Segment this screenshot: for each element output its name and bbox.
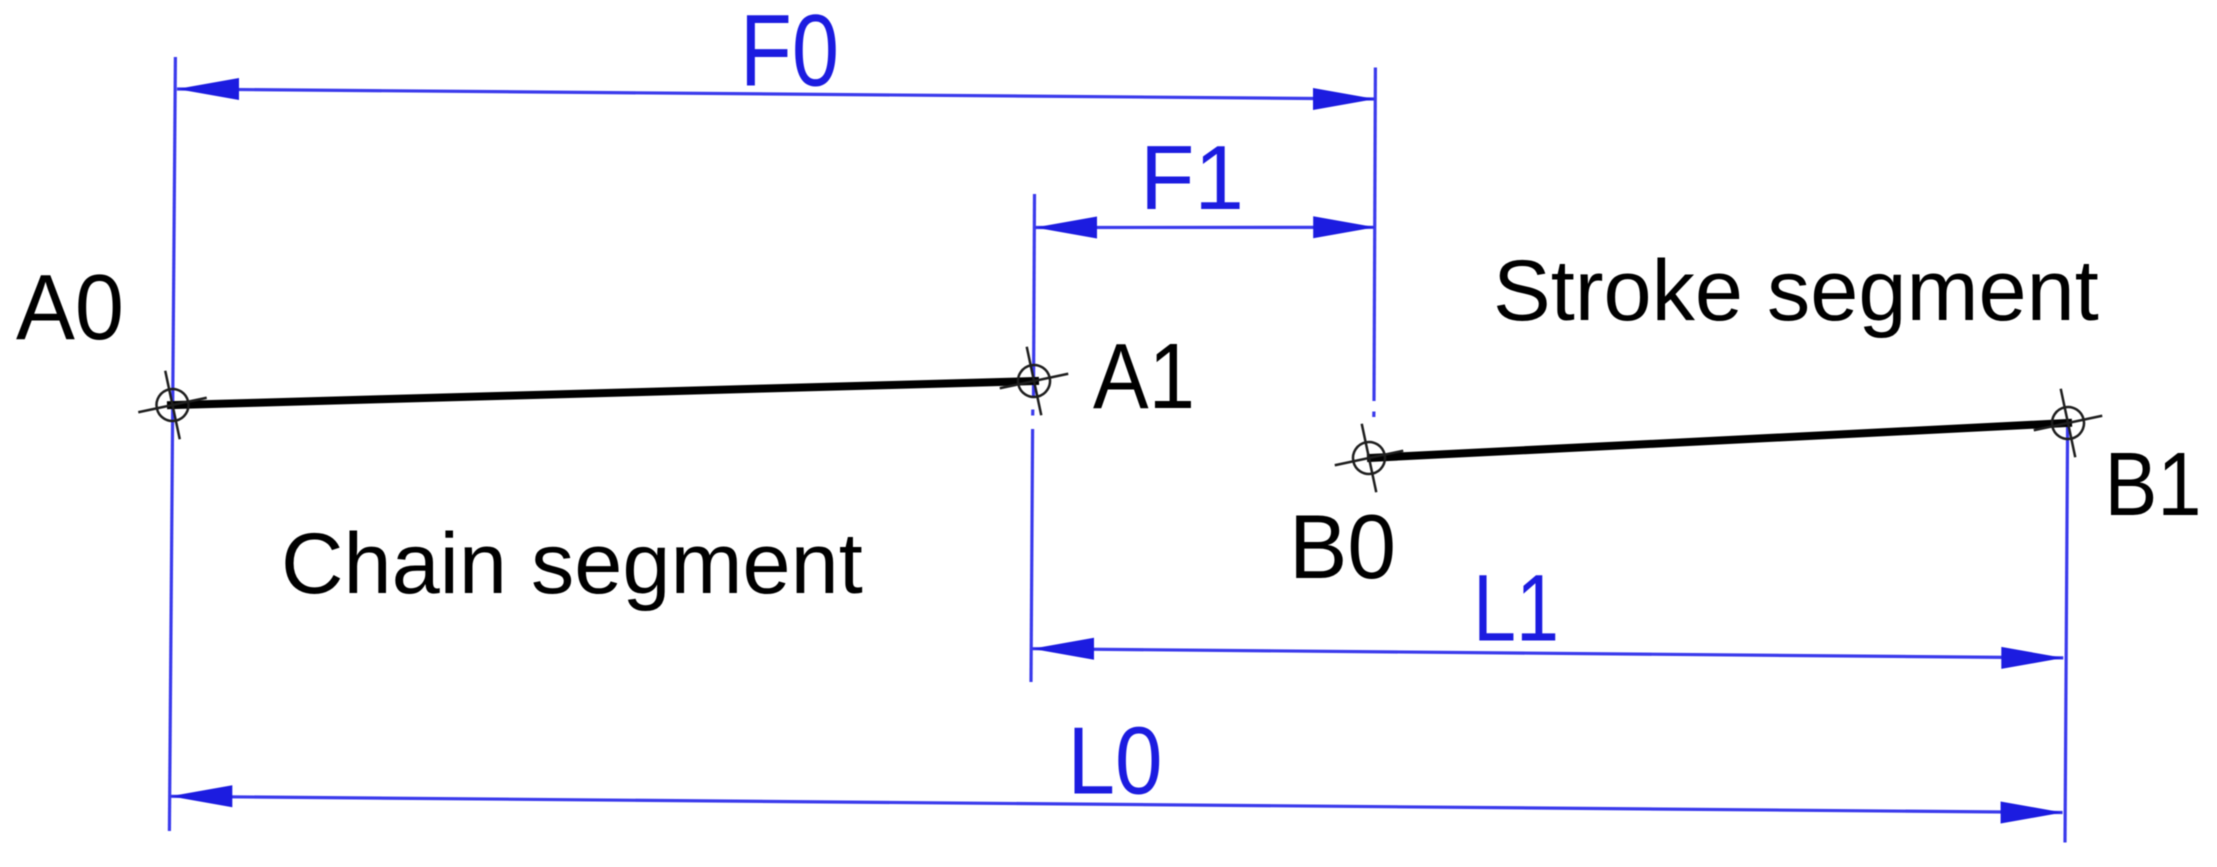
arrowhead F1 left [1035,217,1097,239]
arrowhead L0 left [170,785,232,807]
extension line from B0 dash dot [1372,412,1375,418]
arrowhead L0 right [2001,802,2063,824]
extension line from A1 dash dot [1031,410,1034,416]
extension line from A0 [169,57,175,831]
svg-text:F1: F1 [1140,128,1244,229]
point marker A1 [992,339,1075,422]
point marker B0 [1327,416,1410,499]
svg-text:B1: B1 [2105,435,2202,535]
dimension line F1 [1035,226,1375,229]
dimension line L0 [170,796,2062,812]
svg-text:L1: L1 [1473,556,1559,662]
extension line from B1 [2065,424,2068,843]
svg-text:A1: A1 [1093,324,1195,428]
svg-text:L0: L0 [1068,708,1163,815]
arrowhead L1 left [1032,638,1094,660]
stroke segment B0-B1 [1367,423,2072,458]
svg-text:B0: B0 [1289,497,1396,598]
svg-text:F0: F0 [740,0,839,108]
chain segment A0-A1 [167,381,1039,405]
svg-text:Stroke segment: Stroke segment [1493,243,2099,339]
svg-text:A0: A0 [16,255,124,359]
extension line from A1 upper part [1034,194,1035,397]
arrowhead F0 left [177,78,239,100]
point marker A0 [131,363,214,446]
extension line from A1 lower part [1031,429,1033,682]
arrowhead F0 right [1313,88,1375,110]
svg-text:Chain segment: Chain segment [281,516,863,612]
dimension line L1 [1032,649,2063,658]
point marker B1 [2026,381,2109,464]
dimension line F0 [177,89,1375,99]
extension line from B0 [1374,68,1375,402]
arrowhead L1 right [2001,647,2063,669]
arrowhead F1 right [1313,216,1375,238]
